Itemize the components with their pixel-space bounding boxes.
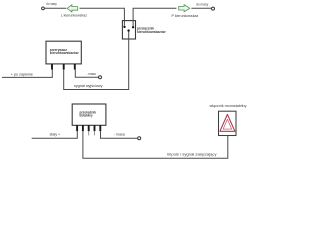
flasher pin 1 (51, 64, 53, 70)
relay pin 2 (82, 125, 84, 131)
indicator arrow P (green, pointing right) (172, 5, 199, 18)
switch common dot bottom (127, 29, 129, 31)
svg-text:L kierunkowskaz: L kierunkowskaz (61, 14, 87, 18)
svg-text:włącznik monostabilny: włącznik monostabilny (210, 104, 247, 108)
wire: flasher masa (75, 70, 98, 78)
flasher box: przerywacz kierunkowskazów (46, 41, 81, 64)
svg-text:kierunkowskazów: kierunkowskazów (137, 30, 166, 34)
hazard switch box: włącznik monostabilny (210, 104, 247, 136)
wire: stały + (32, 131, 78, 138)
relay pin 3 (88, 125, 90, 131)
svg-text:kierunkowskazów: kierunkowskazów (50, 51, 79, 55)
wire: impuls / sygnał załączający (83, 131, 228, 158)
wire: + po zapłonie (2, 70, 52, 78)
relay pin 4 (94, 125, 96, 131)
switch contact dot left (123, 26, 125, 28)
wire: relay masa (101, 131, 138, 138)
warning triangle inner (223, 119, 232, 129)
wire: switch right contact up and to P arrow (133, 8, 176, 26)
terminal: do masy (top right) (196, 2, 215, 10)
wire: L arrow to switch (down into box) (80, 8, 125, 26)
wire: sygnał wyjściowy (flasher output to switch common) (64, 32, 129, 90)
terminal: relay masa (138, 137, 141, 140)
stub wire pin 4 (94, 131, 96, 135)
flasher pin 3 (74, 64, 76, 70)
svg-text:sygnał wyjściowy: sygnał wyjściowy (74, 84, 103, 88)
svg-text:bistabilny: bistabilny (80, 114, 93, 118)
svg-text:do masy: do masy (196, 2, 208, 6)
svg-text:impuls / sygnał załączający: impuls / sygnał załączający (167, 152, 217, 156)
svg-text:- masa: - masa (87, 72, 96, 76)
terminal: flasher masa (99, 76, 102, 79)
terminal: do masy (top left) (42, 2, 57, 10)
indicator arrow L (green, pointing left) (61, 5, 87, 18)
switch box: przełącznik kierunkowskazów (122, 21, 165, 39)
wire: P arrow to right terminal (191, 7, 211, 9)
wire: left terminal to L arrow (45, 7, 67, 9)
switch contact dot right (132, 26, 134, 28)
svg-text:do masy: do masy (46, 2, 57, 6)
relay pin 1 (76, 125, 78, 131)
flasher pin 2 (63, 64, 65, 70)
relay pin 5 (99, 125, 101, 131)
relay box: przekaźnik bistabilny (72, 104, 106, 125)
svg-text:+ po zapłonie: + po zapłonie (11, 73, 33, 77)
svg-text:stały +: stały + (50, 132, 61, 136)
stub wire pin 3 (88, 131, 90, 135)
svg-text:P kierunkowskaz: P kierunkowskaz (172, 14, 199, 18)
warning triangle (hazard symbol) outer (220, 114, 235, 131)
svg-text:- masa: - masa (114, 132, 125, 136)
